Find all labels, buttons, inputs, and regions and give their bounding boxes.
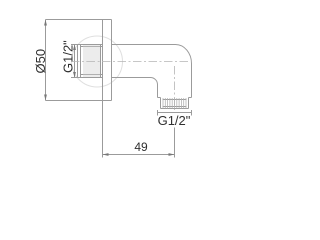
label G1/2" (outlet) with bracket bbox=[158, 110, 192, 116]
thread hatch on inlet bbox=[81, 45, 101, 78]
dimension G1/2 inlet: extension + line + arrows bbox=[71, 45, 81, 78]
outlet thread block G1/2 bbox=[161, 98, 189, 109]
wall flange side view bbox=[103, 20, 112, 101]
vertical centerline of outlet bbox=[174, 66, 176, 113]
rosette circle (front view overlay) bbox=[72, 36, 123, 87]
svg-text:49: 49 bbox=[134, 140, 148, 154]
svg-text:G1/2": G1/2" bbox=[61, 40, 76, 73]
thread hatch on outlet bbox=[163, 98, 186, 109]
svg-text:Ø50: Ø50 bbox=[33, 49, 48, 74]
dimension 49 bbox=[103, 101, 175, 158]
dimension Ø50 line with arrows bbox=[45, 20, 47, 101]
horizontal centerline bbox=[71, 61, 190, 63]
svg-text:G1/2": G1/2" bbox=[158, 113, 191, 128]
spout tube body with elbow bbox=[112, 45, 192, 98]
threaded inlet nipple G1/2 bbox=[78, 45, 103, 78]
dimension Ø50 extension lines bbox=[46, 20, 112, 101]
